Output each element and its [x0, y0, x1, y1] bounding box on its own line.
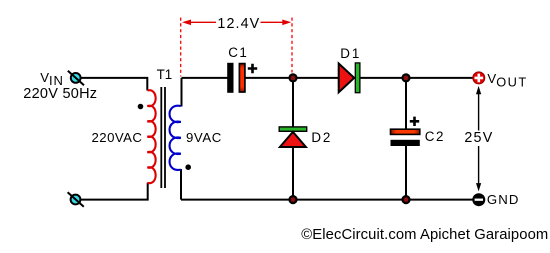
wire D1 to VOUT [360, 77, 473, 79]
label T1 [157, 68, 173, 81]
wire top rail to C1 [182, 77, 228, 79]
core [161, 87, 165, 188]
label 220VAC [92, 131, 143, 144]
primary winding [147, 90, 155, 183]
junction dot top left [288, 73, 297, 82]
secondary winding [170, 106, 181, 170]
label C2 [425, 130, 445, 143]
diode D2 [279, 127, 307, 147]
wire primary loop [81, 78, 147, 91]
wire C2 branch [405, 78, 407, 200]
terminal GND [472, 193, 485, 206]
terminal VIN [68, 71, 84, 86]
wire secondary vertical [181, 78, 183, 107]
label VOUT [487, 72, 527, 89]
wire C1 to D1 [246, 77, 340, 79]
label 25V [464, 131, 493, 145]
label VIN [40, 71, 64, 87]
label D2 [311, 131, 332, 144]
transformer T1 [138, 87, 191, 188]
label 12.4V [217, 17, 260, 31]
label GND [487, 193, 520, 206]
label C1 [228, 46, 248, 59]
wire primary bottom [81, 183, 148, 200]
arrow line left [189, 21, 216, 23]
wire secondary bottom [180, 169, 182, 200]
diode D1 [339, 63, 360, 93]
phase dot primary [138, 104, 144, 110]
dimension 12.4V [181, 18, 292, 77]
wire bottom rail [181, 199, 473, 201]
terminal neutral [68, 192, 84, 207]
wire D2 branch [292, 78, 294, 200]
arrow line right [261, 21, 285, 23]
junction dot bottom left [288, 195, 297, 204]
label 9VAC [186, 131, 222, 144]
junction dot top right [401, 73, 410, 82]
terminal VOUT [473, 72, 485, 84]
junction dot bottom right [401, 195, 410, 204]
capacitor C1 [227, 63, 257, 93]
copyright [301, 228, 548, 243]
dashed line right [291, 18, 293, 73]
capacitor C2 [391, 117, 420, 146]
phase dot secondary [185, 164, 191, 170]
dashed line left [180, 18, 182, 77]
label D1 [340, 47, 361, 60]
dimension 25V arrow [476, 86, 481, 191]
label 220V 50Hz [23, 87, 97, 102]
